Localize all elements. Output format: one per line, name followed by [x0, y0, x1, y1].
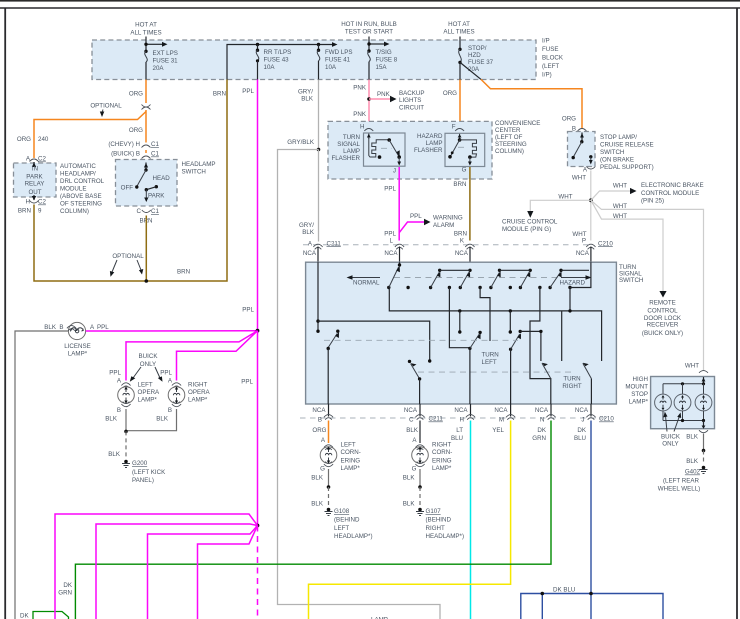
svg-text:OPERA: OPERA	[138, 389, 161, 396]
text automatic headlamp DRL module	[60, 163, 105, 215]
svg-text:HZD: HZD	[468, 52, 481, 59]
svg-text:(LEFT OF: (LEFT OF	[495, 134, 523, 141]
svg-text:LICENSE: LICENSE	[64, 343, 90, 350]
svg-text:BRN: BRN	[177, 269, 190, 276]
svg-text:C2: C2	[38, 199, 46, 206]
svg-text:(LEFT REAR: (LEFT REAR	[663, 477, 700, 484]
arrow to remote control door lock receiver	[659, 291, 666, 298]
svg-text:TEST OR START: TEST OR START	[345, 29, 393, 36]
right cornering lamp connector G	[412, 462, 425, 473]
contact 570 fed by P	[568, 262, 591, 312]
text ELECTRONIC BRAKE CONTROL MODULE (PIN 25)	[641, 182, 704, 205]
svg-text:TURN: TURN	[482, 352, 499, 359]
hazard flasher internals	[448, 134, 476, 166]
left opera lamp text	[138, 382, 161, 404]
fuse T/SIG FUSE 8 15A	[368, 49, 398, 80]
svg-text:WHT: WHT	[613, 213, 627, 220]
wire PPL branch 2	[96, 524, 258, 619]
svg-text:J: J	[393, 168, 396, 175]
turn signal switch label	[619, 264, 643, 284]
svg-text:L: L	[390, 237, 394, 244]
svg-text:B: B	[318, 417, 322, 424]
svg-text:ALARM: ALARM	[433, 222, 454, 229]
svg-text:N: N	[540, 417, 544, 424]
connector L	[395, 244, 404, 249]
svg-text:C2: C2	[38, 156, 46, 163]
label WHT P at connector	[572, 231, 586, 244]
svg-text:DK: DK	[20, 613, 29, 619]
svg-text:LEFT: LEFT	[334, 525, 349, 532]
text WARNING ALARM	[433, 215, 463, 230]
wire from A contact right to C blade column	[318, 321, 430, 361]
junction dot GRY/BLK	[317, 148, 321, 152]
svg-text:AUTOMATIC: AUTOMATIC	[60, 163, 96, 170]
turn signal switch box	[306, 262, 617, 404]
svg-text:LAMP*: LAMP*	[629, 399, 649, 406]
svg-text:PANEL): PANEL)	[132, 477, 154, 484]
svg-text:PPL: PPL	[97, 324, 109, 331]
svg-text:LAMP*: LAMP*	[68, 351, 88, 358]
wire YEL from M down and left	[309, 421, 511, 619]
wire BLK high mount to ground	[686, 434, 705, 466]
svg-text:COLUMN): COLUMN)	[495, 148, 524, 155]
svg-text:PNK: PNK	[377, 91, 391, 98]
svg-text:IN: IN	[32, 166, 38, 173]
turn signal lamp flasher box	[364, 133, 406, 166]
blade 3 K	[459, 269, 472, 290]
wire BRN headlamp switch to junction	[145, 216, 147, 282]
wire ORG optional branch to park relay	[34, 112, 146, 159]
svg-text:G402: G402	[685, 469, 701, 476]
svg-text:NCA: NCA	[535, 407, 549, 414]
text CRUISE CONTROL MODULE (PIN G)	[502, 219, 558, 234]
svg-text:STOP LAMP/: STOP LAMP/	[600, 134, 637, 141]
svg-text:240: 240	[38, 136, 49, 143]
inline connector on ORG wire	[142, 105, 151, 110]
svg-text:FLASHER: FLASHER	[331, 155, 360, 162]
svg-text:TURN: TURN	[563, 376, 580, 383]
svg-text:HEADLAMP/: HEADLAMP/	[60, 171, 96, 178]
license lamp labels BLK B / A PPL	[44, 324, 109, 331]
left cornering lamp connector G	[320, 462, 333, 473]
wire WHT branch to electronic brake control module	[591, 182, 637, 200]
svg-text:ONLY: ONLY	[662, 441, 678, 448]
svg-text:H: H	[26, 199, 30, 206]
svg-text:DK: DK	[63, 582, 72, 589]
left opera lamp connector B	[117, 402, 131, 414]
hazard lamp flasher label	[414, 133, 443, 154]
svg-text:RIGHT: RIGHT	[426, 525, 445, 532]
svg-text:ELECTRONIC BRAKE: ELECTRONIC BRAKE	[641, 182, 704, 189]
headlamp switch label	[182, 161, 216, 176]
svg-text:PPL: PPL	[109, 370, 121, 377]
svg-text:REMOTE: REMOTE	[649, 300, 675, 307]
svg-text:T/SIG: T/SIG	[376, 49, 392, 56]
rail end contact	[561, 311, 563, 361]
svg-text:LEFT: LEFT	[138, 382, 153, 389]
svg-text:WHT: WHT	[685, 363, 699, 370]
wire PPL dashed down page	[257, 526, 259, 619]
svg-text:LAMP*: LAMP*	[432, 465, 452, 472]
svg-text:STEERING: STEERING	[495, 141, 527, 148]
convenience center box	[328, 121, 492, 179]
svg-text:RIGHT: RIGHT	[432, 442, 451, 449]
label OPTIONAL with arrow	[90, 103, 122, 118]
svg-text:PPL: PPL	[410, 213, 422, 220]
wire BLK left opera to junction	[105, 409, 126, 432]
junction dot BRN	[145, 279, 149, 283]
svg-text:OPTIONAL: OPTIONAL	[112, 253, 144, 260]
turn signal flasher internals	[367, 134, 401, 166]
convenience center label	[495, 120, 540, 155]
svg-text:ORG: ORG	[443, 90, 457, 97]
svg-text:ORG: ORG	[17, 136, 31, 143]
turn signal lamp flasher label	[331, 134, 360, 162]
svg-text:DK: DK	[577, 427, 586, 434]
ground G200	[122, 460, 166, 484]
svg-text:RECEIVER: RECEIVER	[647, 322, 679, 329]
svg-text:HAZARD: HAZARD	[560, 279, 586, 286]
svg-text:CORN-: CORN-	[432, 449, 452, 456]
svg-text:MOUNT: MOUNT	[625, 384, 648, 391]
BRN bus feeding fuses 43 and 41	[227, 42, 338, 79]
wire WHT branch to high mount stop lamp	[591, 200, 704, 370]
svg-text:BRN: BRN	[18, 208, 31, 215]
svg-text:FUSE: FUSE	[542, 46, 559, 53]
connector B	[318, 415, 333, 424]
svg-text:GRY/: GRY/	[299, 222, 314, 229]
high mount internals top rail	[663, 377, 705, 385]
svg-text:OPERA: OPERA	[188, 389, 211, 396]
left cornering lamp label	[341, 442, 361, 473]
wire ORG from EXT LPS fuse down to headlamp switch	[145, 80, 147, 164]
svg-text:BLU: BLU	[574, 435, 586, 442]
left cornering lamp bulb	[320, 447, 337, 464]
high mount stop lamp label	[625, 376, 648, 406]
svg-text:C211: C211	[429, 416, 444, 423]
svg-text:FWD LPS: FWD LPS	[325, 49, 353, 56]
svg-text:FUSE 41: FUSE 41	[325, 57, 351, 64]
hazard lamp flasher box	[445, 133, 485, 166]
wire BLK license lamp left and down page	[15, 331, 69, 619]
junction dot WHT	[589, 198, 593, 202]
connector J C210	[581, 415, 614, 424]
svg-text:DRL CONTROL: DRL CONTROL	[60, 178, 105, 185]
svg-text:G200: G200	[132, 460, 148, 467]
wire L into switch	[398, 262, 401, 266]
svg-text:H: H	[460, 417, 464, 424]
svg-text:C: C	[137, 208, 142, 215]
rail connecting blades 2-3	[440, 269, 470, 271]
park relay internals	[25, 162, 45, 201]
linkage dashed line top	[394, 277, 558, 279]
svg-text:NCA: NCA	[575, 407, 589, 414]
wire PPL from RR T/LPS fuse down to license junction	[257, 80, 259, 331]
contact 540 with staircase to N	[530, 286, 551, 404]
wire LT BLU from H down page	[470, 421, 472, 619]
svg-text:HOT IN RUN, BULB: HOT IN RUN, BULB	[341, 21, 397, 28]
text BACKUP LIGHTS CIRCUIT	[399, 90, 424, 112]
wire C blade pivot	[408, 360, 422, 404]
svg-text:G107: G107	[426, 508, 442, 515]
label DK GRN	[58, 582, 73, 597]
wire PNK from T/SIG fuse to turn signal flasher	[368, 80, 370, 129]
svg-text:WHEEL WELL): WHEEL WELL)	[658, 485, 700, 492]
svg-text:(ABOVE BASE: (ABOVE BASE	[60, 193, 102, 200]
svg-text:EXT LPS: EXT LPS	[153, 50, 178, 57]
svg-text:RR T/LPS: RR T/LPS	[264, 49, 292, 56]
label ORG 240	[17, 136, 49, 143]
right opera lamp connector A	[172, 383, 181, 388]
diagonal tap from STOP/HZD fuse to stop lamp switch feed	[460, 62, 482, 79]
wire WHT stop switch to junction and down to P	[590, 171, 592, 241]
svg-text:BLK: BLK	[105, 416, 118, 423]
svg-text:HEAD: HEAD	[153, 175, 171, 182]
high mount bottom rail and exit	[663, 419, 705, 429]
svg-text:ERING: ERING	[432, 458, 452, 465]
park relay box	[14, 163, 57, 197]
svg-text:FUSE 37: FUSE 37	[468, 59, 494, 66]
park relay connector A C2	[26, 156, 47, 163]
svg-text:TURN: TURN	[343, 134, 360, 141]
wire BRN flasher G to connector K	[469, 167, 471, 241]
svg-text:C1: C1	[151, 141, 159, 148]
wire A into switch	[316, 262, 319, 333]
turn right blade J	[583, 363, 592, 404]
svg-text:G: G	[412, 466, 417, 473]
turn left blade H	[468, 331, 482, 404]
wire ORG from STOP/HZD fuse to hazard flasher	[459, 80, 461, 129]
svg-text:DK: DK	[537, 427, 546, 434]
svg-text:BLK: BLK	[311, 475, 324, 482]
svg-text:G108: G108	[334, 508, 350, 515]
svg-text:B: B	[168, 407, 172, 414]
svg-text:PEDAL SUPPORT): PEDAL SUPPORT)	[600, 164, 654, 171]
dumbbell contact 459.8	[458, 309, 461, 334]
connector row bottom dashed line	[300, 417, 610, 419]
page frame left border	[4, 8, 6, 619]
svg-text:WARNING: WARNING	[433, 215, 463, 222]
junction dot BLK opera	[124, 430, 128, 434]
svg-text:PPL: PPL	[242, 307, 254, 314]
page frame top rule	[0, 7, 740, 9]
wire color labels bottom row	[312, 427, 586, 442]
svg-text:LAMP*: LAMP*	[138, 397, 158, 404]
turn right blade N	[542, 363, 551, 379]
label BRN K at connector	[454, 231, 467, 245]
wire PPL branch to left opera lamp	[126, 331, 258, 381]
svg-text:BLU: BLU	[451, 435, 463, 442]
fuse STOP/HZD FUSE 37 20A	[458, 37, 493, 80]
rail right from blade 6	[561, 269, 589, 271]
page frame right border	[736, 8, 738, 619]
svg-text:RELAY: RELAY	[25, 181, 45, 188]
svg-text:PPL: PPL	[160, 370, 172, 377]
black stubs out of switch bottom	[329, 404, 592, 417]
text TURN RIGHT	[562, 376, 581, 391]
svg-text:(BEHIND: (BEHIND	[426, 517, 452, 524]
right opera lamp bulb	[168, 387, 185, 404]
HAZARD arrow	[560, 275, 592, 286]
svg-text:ORG: ORG	[129, 127, 143, 134]
black stubs into turn signal switch	[318, 247, 591, 263]
svg-text:PPL: PPL	[241, 379, 253, 386]
turn left blade M	[509, 330, 522, 404]
svg-text:COLUMN): COLUMN)	[60, 208, 89, 215]
connector row C211 C210 top dashed line	[303, 244, 588, 246]
linkage dashed line lower	[418, 371, 572, 373]
wire BRN park relay down, across, and up to fuse block	[0, 0, 227, 281]
svg-text:CONVENIENCE: CONVENIENCE	[495, 120, 540, 127]
rail connecting blades 4-5	[500, 269, 531, 271]
connector C1 (BUICK) B	[111, 151, 159, 159]
contact 449 with feed to turn-left pivot H	[448, 286, 470, 348]
connector below high mount box	[699, 430, 708, 433]
wire PPL branch 1	[55, 514, 258, 619]
stop lamp switch internals	[572, 133, 593, 165]
svg-text:ORG: ORG	[312, 427, 326, 434]
svg-text:LIGHTS: LIGHTS	[399, 97, 421, 104]
svg-text:WHT: WHT	[572, 175, 586, 182]
svg-text:HOT AT: HOT AT	[135, 22, 157, 29]
svg-text:BUICK: BUICK	[139, 353, 159, 360]
stop lamp switch feed label B	[562, 116, 587, 133]
svg-text:RIGHT: RIGHT	[188, 382, 207, 389]
svg-text:10A: 10A	[325, 64, 337, 71]
svg-text:PNK: PNK	[353, 85, 367, 92]
NCA labels bottom row	[312, 407, 588, 414]
right cornering lamp connector A	[412, 437, 424, 450]
svg-text:SWITCH: SWITCH	[619, 277, 643, 284]
svg-text:SIGNAL: SIGNAL	[337, 141, 360, 148]
svg-text:NCA: NCA	[303, 250, 317, 257]
connector N	[540, 415, 556, 424]
hot feed label middle	[341, 21, 397, 36]
high mount bulb 1	[655, 384, 672, 421]
wire GRY/BLK from FWD fuse to junction	[318, 80, 320, 150]
fuse block I/P (LEFT I/P)	[92, 40, 536, 80]
fuse EXT LPS FUSE 31 20A	[145, 50, 178, 80]
svg-text:20A: 20A	[468, 66, 480, 73]
svg-text:HEADLAMP*): HEADLAMP*)	[426, 533, 465, 540]
svg-text:BLK: BLK	[406, 427, 419, 434]
wire PPL flasher J to connector L	[398, 167, 400, 241]
wire BLK dashed to ground G200	[108, 431, 126, 459]
text REMOTE CONTROL DOOR LOCK RECEIVER (BUICK ONLY)	[642, 300, 683, 337]
switch blade B (normal)	[327, 330, 340, 405]
park relay connector H C2	[26, 199, 47, 206]
svg-text:(BUICK ONLY): (BUICK ONLY)	[642, 330, 683, 337]
headlamp switch internals	[121, 163, 171, 203]
wire BLK to right cornering lamp	[419, 421, 421, 444]
svg-text:LEFT: LEFT	[482, 359, 497, 366]
wire PPL main down to lower junction	[257, 331, 259, 526]
svg-text:WHT: WHT	[613, 182, 627, 189]
blade 5	[519, 269, 532, 290]
wire PPL branch to warning alarm	[399, 213, 430, 233]
svg-text:BLK: BLK	[311, 501, 324, 508]
svg-text:M: M	[499, 417, 504, 424]
svg-text:SWITCH: SWITCH	[182, 169, 206, 176]
svg-text:STOP: STOP	[631, 391, 648, 398]
svg-text:BLK: BLK	[44, 324, 57, 331]
svg-text:NCA: NCA	[312, 407, 326, 414]
svg-text:PPL: PPL	[384, 186, 396, 193]
fuse EXT LPS 31 feed stub + arrow	[144, 37, 167, 54]
svg-text:ALL TIMES: ALL TIMES	[443, 29, 474, 36]
svg-text:LAMP*: LAMP*	[188, 397, 208, 404]
svg-text:NCA: NCA	[404, 407, 418, 414]
text TURN LEFT	[482, 352, 499, 366]
svg-text:BRN: BRN	[453, 181, 466, 188]
hot feed label left	[130, 22, 161, 37]
svg-text:HIGH: HIGH	[633, 376, 648, 383]
headlamp switch box	[116, 160, 178, 207]
label GRY/BLK under FWD fuse	[298, 89, 314, 103]
page top edge line	[0, 0, 740, 2]
wire WHT branch left to cruise control module	[527, 194, 591, 218]
blade 4	[489, 269, 501, 290]
svg-text:C210: C210	[598, 240, 613, 247]
svg-text:NCA: NCA	[494, 407, 508, 414]
blade 2	[429, 269, 442, 290]
svg-text:H: H	[360, 124, 364, 131]
right opera lamp connector B	[168, 402, 181, 414]
svg-text:BLOCK: BLOCK	[542, 55, 564, 62]
svg-text:ORG: ORG	[129, 91, 143, 98]
svg-text:I/P): I/P)	[542, 72, 552, 79]
NORMAL arrow	[347, 275, 381, 286]
svg-text:NCA: NCA	[576, 250, 590, 257]
svg-text:OFF: OFF	[121, 185, 134, 192]
svg-text:BLK: BLK	[686, 458, 699, 465]
wire PPL branch to right opera lamp	[177, 331, 258, 381]
right opera lamp labels	[160, 370, 173, 385]
svg-text:CORN-: CORN-	[341, 449, 361, 456]
svg-text:B: B	[117, 407, 121, 414]
svg-text:ORG: ORG	[562, 116, 576, 123]
svg-text:(LEFT: (LEFT	[542, 63, 559, 70]
svg-text:GRY/BLK: GRY/BLK	[287, 139, 315, 146]
svg-text:GRY/: GRY/	[298, 89, 313, 96]
left cornering lamp connector A	[321, 437, 333, 450]
svg-text:CENTER: CENTER	[495, 127, 521, 134]
connector M	[499, 415, 515, 424]
DK BLU comb	[521, 587, 663, 619]
svg-text:FUSE 8: FUSE 8	[376, 57, 398, 64]
svg-text:20A: 20A	[153, 65, 165, 72]
svg-text:NCA: NCA	[454, 407, 468, 414]
svg-text:C211: C211	[327, 240, 342, 247]
label GRY/BLK above connector A	[299, 222, 315, 236]
svg-text:(CHEVY) H: (CHEVY) H	[108, 141, 140, 148]
right cornering lamp label	[432, 442, 452, 473]
svg-text:15A: 15A	[376, 64, 388, 71]
high mount bulb 2	[674, 384, 691, 421]
svg-text:(ON BRAKE: (ON BRAKE	[600, 157, 634, 164]
junction dot PPL license	[256, 329, 260, 333]
wire DK BLU from J down to comb	[590, 421, 592, 594]
svg-text:C: C	[409, 417, 414, 424]
contact 510	[509, 286, 512, 289]
svg-text:ALL TIMES: ALL TIMES	[130, 29, 161, 36]
left opera lamp connector A	[121, 383, 130, 388]
svg-text:CONTROL: CONTROL	[647, 307, 678, 314]
turn signal flasher terminal H	[360, 124, 373, 131]
svg-text:10A: 10A	[264, 64, 276, 71]
license lamp bulb	[67, 322, 86, 339]
contact dot row1 408	[406, 286, 409, 289]
